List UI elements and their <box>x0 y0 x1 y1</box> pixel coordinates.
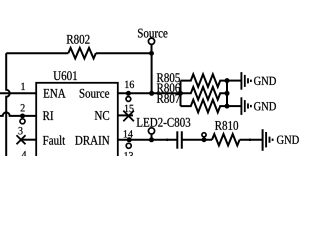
wire pin 3 Fault stub <box>21 139 36 141</box>
label R807 <box>157 94 180 103</box>
pin number 2 <box>21 104 25 111</box>
junction node LED2 <box>149 137 154 142</box>
wire to GND2 <box>227 105 241 107</box>
wire source vertical <box>151 53 153 93</box>
wire joint dot on DRAIN wire <box>166 139 169 142</box>
wire pin 15 NC stub <box>118 114 133 116</box>
resistor network left bar <box>180 81 182 107</box>
wire top horizontal right segment <box>96 52 152 54</box>
pin name Fault <box>43 135 65 144</box>
label R806 <box>157 83 180 92</box>
junction node pin14 terminal <box>127 137 132 142</box>
ground GND1 bars <box>240 72 242 90</box>
junction node after capacitor <box>202 137 207 142</box>
resistor R806 <box>181 87 228 100</box>
label LED2-C803 <box>137 118 191 127</box>
wire R810 to ground <box>240 139 263 141</box>
junction node network right R806 <box>225 91 230 96</box>
wire joint dot before GND3 <box>249 139 252 142</box>
node terminal circle above wire <box>202 133 206 137</box>
resistor R810 <box>212 134 240 145</box>
pin name Source <box>80 89 109 98</box>
ground GND2 bars <box>240 97 242 115</box>
label GND net 3 <box>277 136 299 144</box>
junction node network right R805 <box>225 78 230 83</box>
pin name ENA <box>43 89 65 98</box>
pin number 13 <box>124 152 133 159</box>
pin name NC <box>95 111 109 120</box>
junction node pin16/source/network wire <box>149 91 154 96</box>
label R802 <box>67 35 90 44</box>
pin number 4 <box>22 151 27 158</box>
label U601 <box>53 71 77 80</box>
junction node pin16 terminal <box>126 91 131 96</box>
wire pin 2 RI with hop over left vertical <box>0 112 36 115</box>
capacitor C803 <box>176 131 178 148</box>
label R805 <box>157 73 180 82</box>
pin 2 terminal circle <box>20 119 25 124</box>
node Source: terminal circle and stub <box>148 38 154 44</box>
pin name RI <box>43 111 53 120</box>
wire pin 14 DRAIN <box>118 139 178 141</box>
pin number 14 <box>124 130 133 137</box>
label R810 <box>215 121 238 130</box>
wire cap to R810 <box>182 139 212 141</box>
no-connect X pin 15 <box>123 111 134 122</box>
wire top horizontal left segment <box>6 52 68 54</box>
resistor network right bar <box>226 81 228 107</box>
pin number 3 <box>18 127 22 134</box>
ground GND3 bars <box>262 129 264 151</box>
junction node at Source <box>149 51 154 56</box>
label GND net 2 <box>254 102 276 110</box>
node LED2 terminal circle and stub <box>148 128 154 134</box>
junction node network left <box>178 91 183 96</box>
no-connect X pin 3 <box>17 135 26 144</box>
pin number 15 <box>125 105 134 112</box>
wire pin 1 ENA <box>0 92 36 94</box>
pin number 16 <box>125 81 134 88</box>
wire pin16 junction to resistor network <box>152 92 181 94</box>
IC U601 box <box>36 83 118 163</box>
junction node RI terminal <box>20 113 25 118</box>
resistor R805 <box>181 74 228 87</box>
junction node network right R807 <box>225 104 230 109</box>
label GND net 1 <box>254 77 276 85</box>
wire to GND1 <box>227 80 241 82</box>
pin 14 terminal circle <box>126 143 131 148</box>
label Source (top) <box>138 29 167 38</box>
pin number 1 <box>21 83 25 90</box>
resistor R807 <box>181 100 228 113</box>
wire left vertical with hop over ENA wire <box>6 53 10 156</box>
wire pin 16 Source <box>118 92 152 94</box>
pin name DRAIN <box>75 136 109 145</box>
pin 16 terminal circle <box>126 97 131 102</box>
resistor R802 <box>68 48 96 59</box>
